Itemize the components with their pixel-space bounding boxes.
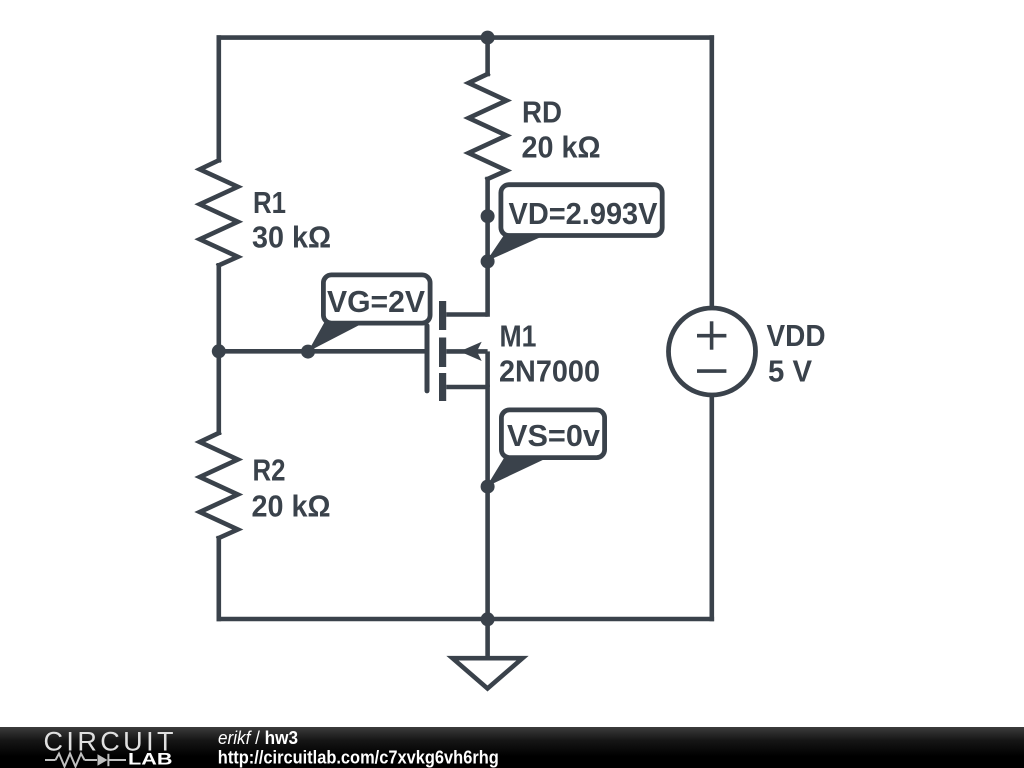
svg-text:R2: R2: [253, 453, 286, 488]
node gate left junction: [212, 344, 226, 358]
svg-text:VG=2V: VG=2V: [327, 284, 425, 319]
svg-text:VDD: VDD: [767, 318, 826, 353]
resistor R2: [200, 433, 238, 538]
node drain measure point: [481, 254, 495, 268]
callout VS=0v: [487, 410, 605, 487]
wire right lower (VDD source to bottom rail): [709, 396, 714, 619]
svg-text:30 kΩ: 30 kΩ: [252, 220, 331, 255]
node gate wire junction (VG anchor): [301, 345, 315, 359]
node drain junction (VD anchor): [481, 209, 495, 223]
voltage source VDD: [669, 308, 756, 395]
callout VG=2V: [308, 275, 430, 352]
wire source (M1 source to ground rail): [485, 387, 490, 619]
callout VD=2.993V: [486, 185, 662, 262]
wire mid top (top rail to RD): [485, 38, 490, 74]
svg-text:20 kΩ: 20 kΩ: [522, 130, 601, 165]
resistor R1: [200, 160, 238, 265]
wire gate (node to M1 gate): [219, 349, 425, 354]
ground: [453, 619, 523, 689]
wire top (VDD rail): [219, 35, 712, 40]
svg-text:VD=2.993V: VD=2.993V: [509, 196, 658, 231]
footer logo doodle (resistor + diode): [45, 754, 126, 767]
label M1 value: [499, 319, 600, 389]
svg-text:RD: RD: [522, 95, 562, 130]
wire left lower (R2 to bottom rail): [217, 538, 222, 619]
wire left upper (top rail to R1): [217, 38, 222, 161]
wire bottom (ground rail): [219, 617, 712, 622]
svg-text:M1: M1: [500, 319, 537, 354]
svg-text:http://circuitlab.com/c7xvkg6v: http://circuitlab.com/c7xvkg6vh6rhg: [218, 747, 499, 768]
wire right upper (top rail to VDD source): [709, 38, 714, 307]
node source measure point: [481, 480, 495, 494]
label VDD value: [767, 318, 826, 388]
svg-text:20 kΩ: 20 kΩ: [252, 488, 331, 523]
svg-text:5 V: 5 V: [768, 353, 812, 388]
transistor M1: [427, 301, 488, 401]
wire left middle (R1 to R2, gate node): [217, 265, 222, 432]
svg-text:R1: R1: [253, 185, 286, 220]
node bottom junction: [481, 612, 495, 626]
node top junction: [481, 31, 495, 45]
footer bar: [0, 727, 1024, 768]
label R2 value: [252, 453, 331, 524]
resistor RD: [469, 74, 507, 179]
label RD value: [522, 95, 601, 165]
label R1 value: [252, 185, 331, 255]
svg-text:LAB: LAB: [128, 750, 173, 768]
svg-text:erikf / hw3: erikf / hw3: [218, 728, 298, 748]
wire drain (RD to M1 drain): [485, 179, 490, 315]
svg-text:2N7000: 2N7000: [499, 353, 600, 388]
svg-text:VS=0v: VS=0v: [507, 418, 601, 453]
